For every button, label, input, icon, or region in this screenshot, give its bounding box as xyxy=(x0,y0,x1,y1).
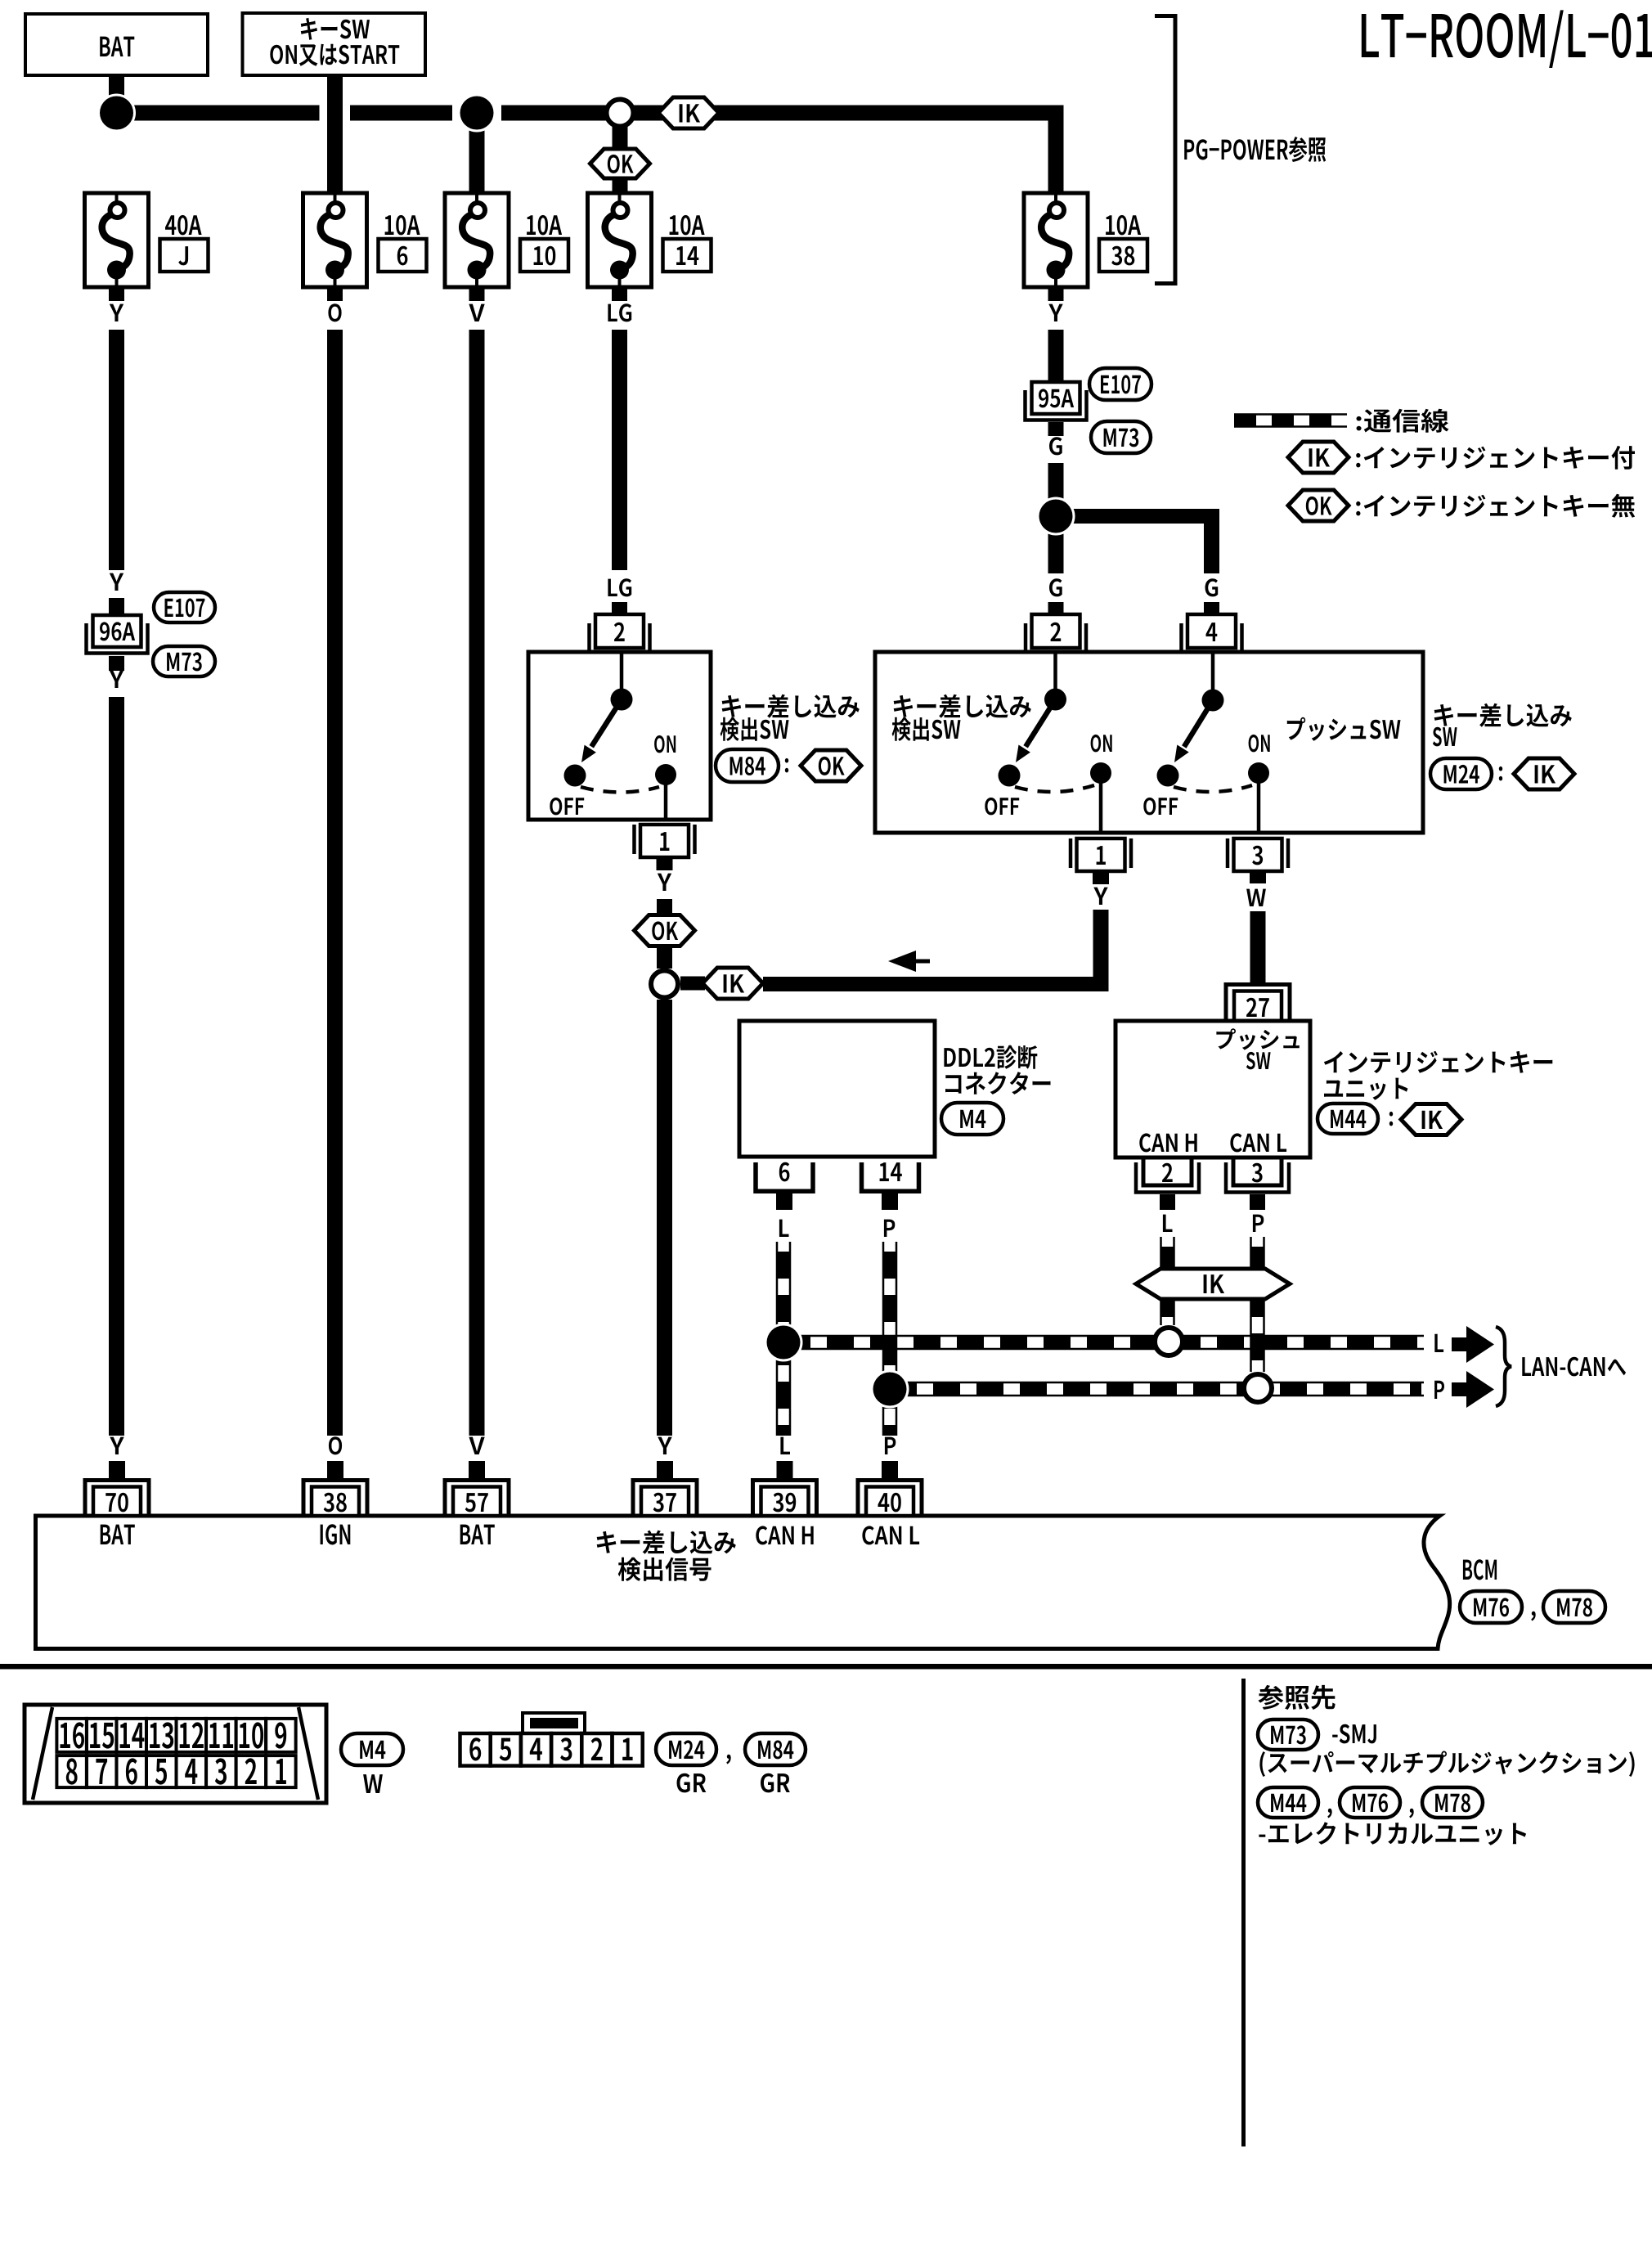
label ON (M84) xyxy=(654,735,676,753)
label OFF (M24 sw2) xyxy=(1143,798,1178,816)
label key insert detection SW line2 (M84) xyxy=(721,717,789,741)
title LT-ROOM/L-01 xyxy=(1362,10,1652,68)
wire color O (fuse 6) xyxy=(328,303,341,321)
stub below Y label xyxy=(657,899,672,915)
switch contact M84 xyxy=(564,689,677,793)
label key insert detection SW line1 (M84) xyxy=(722,694,860,718)
wire O fuse 6 down to BCM xyxy=(327,330,343,1436)
wire color L (DDL2) xyxy=(779,1220,789,1237)
6-pin cell 5 xyxy=(491,1733,521,1766)
wire color P (DDL2) xyxy=(884,1220,895,1237)
fuse rating 10A xyxy=(670,215,705,236)
open circle on key-in signal wire xyxy=(651,971,678,998)
switch contact M24 key insert xyxy=(999,689,1112,793)
6-pin cell 6 xyxy=(460,1733,491,1766)
stub below pin 3 M24 xyxy=(1250,870,1266,883)
reference M73 xyxy=(1258,1719,1318,1750)
BCM pin 57 xyxy=(445,1481,509,1517)
switch contact M24 push SW xyxy=(1157,690,1270,793)
variant tag OK (below M84) xyxy=(635,915,695,946)
pin label CAN H (IK unit) xyxy=(1139,1133,1196,1152)
pin 2 of IK unit xyxy=(1136,1157,1199,1193)
comm line CAN P to LAN-CAN xyxy=(890,1382,1424,1396)
legend text communication line xyxy=(1357,409,1449,433)
legend communication line sample xyxy=(1234,415,1347,427)
stub above BCM pin 38 xyxy=(327,1461,343,1478)
connector ref M4 xyxy=(941,1103,1003,1135)
component box intelligent key unit M44 xyxy=(1116,1021,1310,1157)
connector color GR (M84) xyxy=(761,1773,790,1793)
fuse rating 10A xyxy=(385,215,420,236)
switch output line M24 sw1 xyxy=(1099,773,1103,833)
connector color W (M4) xyxy=(363,1774,383,1793)
arrow CAN P to LAN-CAN xyxy=(1452,1382,1468,1396)
comm wire P from IK unit pin 3 xyxy=(1251,1237,1264,1372)
junction dot CAN L xyxy=(765,1324,803,1362)
variant tag IK (key-in signal) xyxy=(703,968,763,999)
wire Y fuse 38 down to 95A xyxy=(1048,330,1064,381)
OBD pin number 3 xyxy=(215,1758,227,1784)
wire color G above pin 2 xyxy=(1049,578,1062,596)
wire color Y (fuse 38) xyxy=(1048,304,1062,321)
wire key-SW box to fuse 6 (crosses bus) xyxy=(327,75,343,193)
wire G down to junction xyxy=(1048,463,1064,516)
stub above pin 4 M24 xyxy=(1204,602,1219,614)
wire OK tag to fuse 14 xyxy=(613,178,628,193)
label key insert SW line1 (M24 right) xyxy=(1434,703,1572,727)
pin label key insert detect signal line1 xyxy=(597,1531,736,1554)
label DDL2 diagnostic line2 xyxy=(945,1072,1051,1095)
stub under fuse J xyxy=(109,287,124,301)
wire color L (IK unit) xyxy=(1163,1215,1173,1232)
comm wire P from DDL2 pin 14 to BCM pin 40 xyxy=(883,1242,896,1436)
arrow CAN L to LAN-CAN xyxy=(1452,1337,1468,1351)
wire color V above BCM pin 57 xyxy=(469,1437,484,1454)
stub under fuse 38 xyxy=(1048,287,1064,301)
label LAN-CAN e xyxy=(1522,1357,1626,1377)
wire BAT box to bus xyxy=(109,75,124,120)
fuse rating 10A xyxy=(527,215,562,236)
OBD pin number 15 xyxy=(90,1723,114,1749)
6-pin number 1 xyxy=(622,1738,632,1760)
label DDL2 diagnostic line1 xyxy=(944,1045,1037,1069)
OBD pin number 11 xyxy=(209,1723,233,1748)
switch box M24 key switch (key insert + push SW) xyxy=(875,652,1423,833)
horizontal wire from M24 pin 1 to circle xyxy=(763,977,1108,991)
stub below IK unit pin 3 xyxy=(1250,1194,1265,1210)
fuse number box 38 xyxy=(1099,239,1147,272)
OBD cell 7 xyxy=(87,1755,117,1787)
wire color P (CAN line) xyxy=(1434,1381,1444,1399)
stub under fuse 14 xyxy=(612,287,627,301)
OBD cell 13 xyxy=(146,1719,177,1752)
comm wire L from DDL2 pin 6 to BCM pin 39 xyxy=(777,1242,790,1436)
connector ref M73 (95A) xyxy=(1091,421,1151,453)
wire color O above BCM pin 38 xyxy=(329,1436,342,1454)
switch output line M84 xyxy=(664,775,668,820)
connector face M4 (16-pin OBD) xyxy=(25,1705,326,1803)
pin 6 of DDL2 xyxy=(756,1162,813,1192)
variant tag IK (on bus) xyxy=(658,97,719,128)
variant tag OK (above fuse 14) xyxy=(590,149,650,178)
6-pin number 6 xyxy=(469,1737,481,1760)
6-pin number 5 xyxy=(500,1738,511,1761)
wire W from M24 pin 3 to pin 27 xyxy=(1250,911,1266,982)
wire color Y above 96A xyxy=(110,573,123,591)
stub under fuse 6 xyxy=(327,287,343,301)
pin 2 of M24 xyxy=(1026,614,1086,653)
stub above BCM pin 39 xyxy=(777,1461,793,1478)
SMJ connector 96A xyxy=(87,615,148,654)
legend tag IK xyxy=(1288,442,1349,473)
OBD pin number 5 xyxy=(155,1759,167,1785)
junction dot bus at fuse 10 wire xyxy=(458,94,496,133)
label IK in large hexagon xyxy=(1204,1274,1225,1293)
pin 3 of IK unit xyxy=(1226,1157,1289,1193)
OBD cell 9 xyxy=(266,1719,296,1752)
OBD pin number 6 xyxy=(126,1758,137,1784)
bus wire BAT horizontal right of circle xyxy=(634,106,1064,121)
6-pin cell 3 xyxy=(551,1733,581,1766)
OBD cell 5 xyxy=(146,1755,177,1787)
OBD pin number 12 xyxy=(180,1722,204,1748)
label key insert SW line2 (M24 right) xyxy=(1433,727,1457,747)
wire color L (CAN line) xyxy=(1434,1334,1443,1352)
OBD cell 12 xyxy=(177,1719,207,1752)
pin label BAT (pin 57) xyxy=(460,1525,495,1544)
connector ref M84 xyxy=(716,749,779,782)
switch box M84 key insert detection SW xyxy=(528,652,711,820)
colon after M44 xyxy=(1389,1112,1393,1126)
OBD pin number 1 xyxy=(276,1759,286,1784)
reference electrical unit xyxy=(1259,1822,1526,1845)
wire LG fuse 14 down to key switch xyxy=(612,330,627,570)
BCM pin 70 xyxy=(85,1481,149,1517)
pin 4 of M24 xyxy=(1182,614,1242,653)
SMJ connector 95A xyxy=(1026,382,1087,420)
wire color G below 95A xyxy=(1049,437,1062,455)
label BAT (power box) xyxy=(100,37,134,56)
OBD cell 3 xyxy=(206,1755,236,1787)
stub above pin 2 M24 xyxy=(1048,602,1064,614)
stub above BCM pin 40 xyxy=(882,1461,898,1478)
OBD pin number 8 xyxy=(66,1758,78,1784)
variant tag IK (M44) xyxy=(1401,1104,1461,1135)
stub below pin 1 M84 xyxy=(657,857,673,870)
direction arrow on key-in signal wire xyxy=(888,951,916,972)
component box DDL2 diagnostic connector M4 xyxy=(739,1021,935,1157)
fuse number box J xyxy=(160,239,209,272)
connector ref M44 xyxy=(1318,1104,1378,1134)
label ON (M24 sw2) xyxy=(1249,735,1270,753)
wire color Y below M24 pin 1 xyxy=(1093,888,1107,905)
wire color P (IK unit) xyxy=(1253,1215,1264,1232)
junction dot G xyxy=(1037,497,1075,536)
OBD cell 10 xyxy=(236,1719,267,1752)
pin label IGN (pin 38) xyxy=(321,1524,351,1544)
BCM pin 39 xyxy=(753,1481,817,1517)
pin 14 of DDL2 xyxy=(862,1162,919,1191)
label OFF (M24 sw1) xyxy=(985,798,1019,816)
stub above pin 2 M84 xyxy=(612,602,627,614)
wire circle to OK tag xyxy=(613,127,628,150)
fuse 10A 38 xyxy=(1024,193,1088,287)
switch output line M24 sw2 xyxy=(1257,773,1261,833)
label push SW in IK unit line1 xyxy=(1216,1028,1299,1050)
label PG-POWER sansho xyxy=(1184,137,1326,162)
comma after M44 xyxy=(1327,1809,1331,1818)
fuse number box 14 xyxy=(663,239,712,272)
connector ref M24 xyxy=(1430,758,1492,789)
wire Y 96A down to BCM xyxy=(109,697,124,1436)
OBD pin number 14 xyxy=(120,1723,145,1748)
legend text with intelligent key xyxy=(1356,446,1635,470)
stub below 96A xyxy=(109,656,124,671)
label intelligent key line2 xyxy=(1324,1078,1407,1100)
fuse 40A J xyxy=(85,193,149,287)
wire circle to IK tag xyxy=(680,977,705,991)
branch wire G to pin 4 xyxy=(1056,509,1212,524)
6-pin cell 2 xyxy=(581,1733,612,1766)
BCM pin 38 xyxy=(303,1481,367,1517)
wire V fuse 10 down to BCM xyxy=(469,330,485,1436)
connector face M24/M84 (6-pin) xyxy=(523,1713,585,1733)
label ON (M24 sw1) xyxy=(1091,735,1112,753)
branch wire G corner down xyxy=(1204,509,1219,573)
connector ref M24 (face) xyxy=(656,1733,716,1765)
comm line CAN L to LAN-CAN xyxy=(783,1336,1424,1349)
comma between M76 M78 xyxy=(1531,1611,1535,1621)
BCM pin 40 xyxy=(858,1481,922,1517)
OBD cell 6 xyxy=(116,1755,146,1787)
fuse rating 10A xyxy=(1106,215,1141,236)
variant tag IK (M24) xyxy=(1514,758,1574,789)
switch feed line M24 sw1 xyxy=(1053,652,1057,699)
connector ref M4 (face) xyxy=(341,1733,403,1765)
pin 3 of M24 xyxy=(1228,838,1288,871)
wire color P above BCM pin 40 xyxy=(885,1437,896,1454)
wire color W below M24 pin 3 xyxy=(1246,889,1266,906)
label push SW in IK unit line2 xyxy=(1246,1052,1271,1070)
label intelligent key line1 xyxy=(1324,1051,1552,1073)
variant tag OK (M84) xyxy=(801,750,861,781)
reference M76 xyxy=(1340,1787,1400,1818)
stub below pin 1 M24 xyxy=(1093,871,1109,884)
wire G down to pin 2 xyxy=(1048,532,1064,573)
fuse number box 6 xyxy=(379,239,427,272)
OBD cell 14 xyxy=(116,1719,146,1752)
power source box BAT xyxy=(25,14,208,75)
fuse rating 40A xyxy=(165,215,202,236)
OBD pin number 4 xyxy=(185,1759,197,1784)
bus wire BAT horizontal xyxy=(117,106,320,121)
6-pin number 4 xyxy=(530,1738,542,1760)
wire color Y (fuse J) xyxy=(110,304,123,321)
wire color Y below 96A xyxy=(110,671,123,688)
connector color GR (M24) xyxy=(677,1773,707,1793)
section divider line xyxy=(0,1664,1652,1670)
pin label CAN L (pin 40) xyxy=(862,1526,919,1544)
bus wire BAT horizontal (right of fuse10 junction) xyxy=(501,106,606,121)
colon after M24 xyxy=(1499,766,1502,781)
switch feed line M24 sw2 xyxy=(1211,652,1215,700)
connector ref E107 (96A) xyxy=(154,592,215,623)
wire color G above pin 4 xyxy=(1205,578,1219,596)
wire color L above BCM pin 39 xyxy=(780,1437,790,1454)
OBD pin number 9 xyxy=(275,1722,286,1748)
pin label CAN L (IK unit) xyxy=(1230,1133,1286,1152)
stub below DDL2 pin 14 xyxy=(882,1193,898,1210)
wire Y fuse J down to 96A xyxy=(109,330,124,570)
OBD cell 4 xyxy=(177,1755,207,1787)
fuse 10A 10 xyxy=(445,193,509,287)
bus wire BAT horizontal (right of key-SW wire) xyxy=(350,106,452,121)
wire color LG (fuse 14) xyxy=(608,303,631,321)
legend tag OK xyxy=(1288,490,1349,521)
reference -SMJ xyxy=(1332,1724,1376,1744)
stub below 95A xyxy=(1048,422,1064,436)
label OFF (M84) xyxy=(550,798,584,816)
OBD pin number 16 xyxy=(61,1722,85,1748)
label key insert detection SW (M24) line1 xyxy=(894,694,1031,718)
label push SW (M24) xyxy=(1287,717,1401,741)
label key-SW line2 xyxy=(270,44,399,66)
connector ref M78 (BCM) xyxy=(1543,1591,1605,1623)
wire color V (fuse 10) xyxy=(469,304,484,321)
PG-POWER reference bracket xyxy=(1155,16,1175,284)
pin label BAT (pin 70) xyxy=(101,1525,135,1544)
comm wire L from IK unit pin 2 xyxy=(1161,1237,1174,1325)
OBD cell 16 xyxy=(56,1719,87,1752)
stub above BCM pin 37 xyxy=(657,1461,673,1478)
OBD cell 2 xyxy=(236,1755,267,1787)
comma after M76 xyxy=(1409,1809,1413,1818)
component box BCM xyxy=(36,1516,1450,1649)
OBD pin number 2 xyxy=(245,1758,257,1784)
connector ref M73 (96A) xyxy=(153,646,215,676)
reference super multiple junction xyxy=(1259,1751,1634,1778)
fuse 10A 6 xyxy=(303,193,367,287)
stub above BCM pin 57 xyxy=(469,1461,485,1478)
legend text without intelligent key xyxy=(1356,494,1635,518)
wire Y key-in signal down to BCM pin 37 xyxy=(657,1000,672,1436)
stub above BCM pin 70 xyxy=(109,1461,125,1478)
label key insert detection SW (M24) line2 xyxy=(892,717,961,741)
open circle CAN P at IK wire xyxy=(1244,1374,1272,1402)
power source box key switch xyxy=(243,13,426,75)
comma between M24 M84 xyxy=(726,1755,730,1764)
pin label key insert detect signal line2 xyxy=(618,1558,712,1581)
6-pin number 2 xyxy=(591,1737,603,1760)
pin 1 of M24 xyxy=(1071,838,1131,871)
connector ref E107 (95A) xyxy=(1089,368,1151,400)
wire color Y above BCM pin 70 xyxy=(110,1437,123,1454)
wire color Y below M84 xyxy=(658,874,671,891)
bus corner down to fuse 38 xyxy=(1048,106,1064,193)
connector ref M76 (BCM) xyxy=(1460,1591,1522,1623)
open circle CAN L at IK wire xyxy=(1155,1328,1183,1355)
wire bus to fuse 10 xyxy=(469,120,485,193)
OBD pin number 13 xyxy=(150,1722,173,1748)
OBD cell 15 xyxy=(87,1719,117,1752)
pin label CAN H (pin 39) xyxy=(756,1526,813,1544)
reference M44 xyxy=(1258,1787,1318,1818)
6-pin cell 1 xyxy=(613,1733,643,1766)
connector ref M84 (face) xyxy=(745,1733,806,1765)
OBD pin number 7 xyxy=(96,1759,107,1784)
junction dot CAN P xyxy=(871,1370,909,1409)
switch feed line M84 xyxy=(620,652,624,699)
fuse number box 10 xyxy=(520,239,568,272)
junction dot bus at BAT wire xyxy=(97,94,136,133)
reference column divider xyxy=(1241,1679,1246,2146)
OBD cell 1 xyxy=(266,1755,296,1787)
label key-SW line1 xyxy=(301,18,370,40)
vertical wire from M24 pin 1 xyxy=(1093,910,1109,991)
OBD pin number 10 xyxy=(240,1722,263,1748)
wire OK tag to circle xyxy=(657,946,672,969)
6-pin number 3 xyxy=(560,1737,572,1760)
OBD cell 11 xyxy=(206,1719,236,1752)
colon after M84 xyxy=(785,758,788,773)
wire color LG above pin 2 M84 xyxy=(608,578,631,596)
stub above 96A xyxy=(109,598,124,615)
pin 2 of M84 xyxy=(590,614,650,653)
open circle on bus (fuse 14 tap) xyxy=(607,100,634,127)
fuse 10A 14 xyxy=(588,193,652,287)
6-pin cell 4 xyxy=(521,1733,551,1766)
variant tag IK (CAN wires) xyxy=(1136,1269,1290,1299)
stub below IK unit pin 2 xyxy=(1160,1194,1175,1210)
curly brace LAN-CAN xyxy=(1496,1327,1511,1406)
pin 27 of intelligent key unit xyxy=(1226,985,1290,1022)
stub under fuse 10 xyxy=(469,287,485,301)
wire color Y above BCM pin 37 xyxy=(658,1437,671,1454)
reference M78 xyxy=(1422,1787,1483,1818)
heading sansho-saki xyxy=(1258,1685,1335,1710)
stub below DDL2 pin 6 xyxy=(776,1193,792,1210)
pin 1 of M84 xyxy=(635,825,695,857)
BCM pin 37 xyxy=(633,1481,697,1517)
label BCM xyxy=(1463,1559,1497,1580)
OBD cell 8 xyxy=(56,1755,87,1787)
